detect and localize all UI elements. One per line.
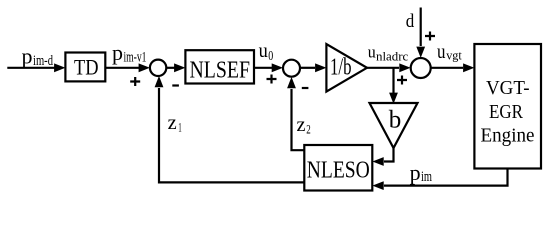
wire z2 feedback NLESO to summer 2 — [287, 77, 304, 150]
svg-text:z: z — [168, 112, 177, 134]
minus sign at summer 1 — [172, 84, 179, 86]
wire z1 feedback NLESO to summer 1 — [155, 76, 305, 182]
svg-text:p: p — [410, 160, 421, 185]
summing junction 1 — [150, 60, 166, 76]
node label u_0 — [259, 41, 274, 64]
svg-text:1/b: 1/b — [330, 54, 352, 80]
svg-text:z: z — [297, 114, 306, 136]
svg-text:vgt: vgt — [446, 49, 462, 63]
plus sign at summer 3 top — [425, 32, 435, 41]
svg-text:d: d — [406, 11, 415, 32]
node label p_im-d — [22, 44, 54, 69]
wire input p_im-d — [7, 63, 65, 72]
block NLESO — [304, 145, 372, 191]
svg-text:im-d: im-d — [33, 53, 54, 69]
svg-text:nladrc: nladrc — [376, 50, 409, 64]
svg-text:p: p — [112, 40, 123, 65]
node label u_nladrc — [368, 43, 409, 64]
wire engine output p_im to NLESO — [372, 169, 507, 191]
wire disturbance d input — [416, 8, 425, 58]
node label z_1 — [168, 112, 182, 135]
wire summer 2 to 1/b gain — [300, 63, 326, 72]
wire summer 1 to NLSEF — [166, 63, 185, 72]
svg-text:u: u — [368, 43, 376, 62]
block VGT-EGR Engine — [474, 44, 541, 169]
svg-text:NLSEF: NLSEF — [190, 58, 251, 84]
wire b gain to NLESO — [372, 148, 393, 166]
node label u_vgt — [437, 42, 462, 63]
plus sign at summer 3 left — [397, 76, 407, 85]
node label z_2 — [297, 114, 311, 136]
gain block b — [370, 103, 418, 148]
node label p_im — [410, 160, 433, 185]
node label p_im-v1 — [112, 40, 147, 65]
svg-text:im-v1: im-v1 — [124, 49, 147, 65]
svg-text:u: u — [259, 41, 268, 62]
plus sign at summer 1 — [130, 77, 140, 86]
gain block 1/b — [326, 44, 367, 92]
summing junction 2 — [283, 60, 300, 77]
svg-text:0: 0 — [268, 49, 273, 64]
wire branch down to b gain — [389, 68, 398, 104]
block NLSEF — [185, 50, 254, 83]
svg-text:b: b — [389, 107, 402, 134]
block TD — [65, 53, 105, 82]
minus sign at summer 2 — [302, 87, 309, 89]
wire summer 3 to engine — [431, 63, 475, 72]
wire TD to summer 1 — [105, 63, 150, 72]
svg-text:2: 2 — [306, 121, 311, 136]
svg-text:NLESO: NLESO — [307, 158, 370, 184]
svg-text:TD: TD — [74, 55, 99, 80]
plus sign at summer 2 — [267, 75, 277, 84]
svg-text:EGR: EGR — [489, 102, 523, 123]
summing junction 3 — [411, 58, 431, 78]
svg-text:1: 1 — [178, 120, 182, 135]
svg-text:VGT-: VGT- — [486, 78, 530, 99]
svg-text:Engine: Engine — [481, 126, 535, 147]
svg-text:im: im — [421, 169, 433, 185]
wire NLSEF to summer 2 — [254, 63, 283, 72]
wire 1/b to summer 3 — [367, 63, 411, 72]
svg-text:u: u — [437, 42, 446, 63]
svg-text:p: p — [22, 44, 33, 69]
